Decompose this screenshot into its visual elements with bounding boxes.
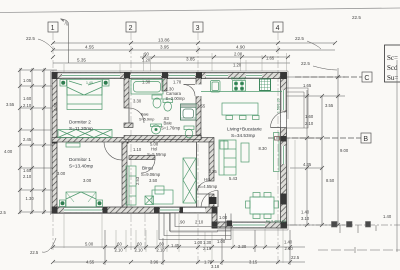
svg-text:C: C: [364, 75, 369, 82]
B-axis wall dorm2/dorm1: [52, 138, 129, 143]
svg-text:8.50: 8.50: [326, 178, 335, 183]
shelf dormitor1: [66, 143, 80, 147]
ticks left chain: [18, 68, 46, 214]
svg-text:Su=: Su=: [387, 74, 398, 82]
svg-text:1.40: 1.40: [86, 81, 93, 85]
svg-text:Hol: Hol: [204, 177, 210, 182]
svg-text:2.00: 2.00: [234, 52, 243, 57]
svg-text:.90: .90: [143, 52, 149, 57]
hall closet with X: [183, 158, 196, 203]
svg-text:B: B: [363, 136, 368, 143]
svg-text:S=5.9mp: S=5.9mp: [139, 118, 154, 122]
desk chair: [145, 196, 154, 205]
svg-text:S=1.76mp: S=1.76mp: [161, 126, 181, 131]
svg-text:1.50/1.20: 1.50/1.20: [277, 98, 281, 113]
window dormitor1 bottom: [64, 207, 102, 212]
desk birou: [152, 186, 173, 204]
kitchen island: [222, 103, 259, 120]
svg-text:1.30: 1.30: [203, 240, 212, 245]
svg-text:5.43: 5.43: [229, 176, 238, 181]
nightstand left with plant: [60, 80, 67, 87]
outer sill line: [51, 71, 289, 232]
svg-text:4.00: 4.00: [4, 149, 13, 154]
svg-text:Fe 2.40/2.10: Fe 2.40/2.10: [266, 220, 286, 224]
svg-text:1.40: 1.40: [301, 210, 310, 215]
window living bottom: [233, 222, 265, 227]
dining table: [246, 193, 279, 219]
window dormitor2 top: [62, 73, 120, 78]
stove: [233, 81, 246, 92]
bidet: [163, 99, 173, 111]
bed dormitor1: [66, 192, 96, 207]
sheet fold line: [0, 8, 400, 13]
washbasin: [151, 124, 162, 134]
svg-text:.90: .90: [179, 220, 185, 225]
svg-text:1.65: 1.65: [266, 56, 275, 61]
window kitchen top 2: [246, 73, 262, 78]
svg-text:1.10: 1.10: [133, 147, 142, 152]
baie door arc: [129, 108, 144, 123]
svg-text:1.78: 1.78: [173, 80, 182, 85]
entry steps: [159, 214, 231, 240]
left wall: [52, 73, 57, 214]
wall stub under baie door: [124, 123, 133, 128]
nightstand left d1: [60, 200, 66, 207]
wall dorm2/baie vertical: [124, 78, 129, 108]
svg-text:1.40: 1.40: [284, 240, 293, 245]
kitchen sink: [211, 81, 221, 93]
svg-text:3.95: 3.95: [160, 45, 169, 50]
camara door arc: [184, 85, 196, 97]
top dimension lines: [53, 43, 335, 63]
top wall: [52, 73, 287, 79]
svg-text:Baie: Baie: [141, 113, 149, 117]
svg-text:.60: .60: [158, 242, 164, 247]
svg-text:2.30: 2.30: [238, 244, 247, 249]
bed dormitor2: [67, 80, 102, 110]
svg-text:3.30: 3.30: [133, 99, 142, 104]
witness lines bottom: [64, 140, 295, 263]
pier hol wall: [209, 197, 217, 204]
svg-text:S=5.59mp: S=5.59mp: [147, 152, 167, 157]
ticks right chain: [305, 75, 340, 227]
bottom wall left part: [52, 207, 217, 213]
svg-text:3.96: 3.96: [150, 260, 159, 265]
svg-text:1.30: 1.30: [166, 87, 175, 92]
B-axis wall hol top: [129, 138, 214, 143]
svg-text:Living+Bucatarie: Living+Bucatarie: [227, 127, 262, 132]
coffee table: [241, 143, 249, 162]
bottom wall right part: [212, 222, 287, 228]
svg-text:S=11.20mp: S=11.20mp: [69, 126, 93, 131]
nightstand right d1: [97, 200, 103, 207]
svg-text:S=34.53mp: S=34.53mp: [231, 133, 255, 138]
svg-text:3.55: 3.55: [6, 102, 15, 107]
corner piers: [52, 72, 288, 229]
right dimension chain: [287, 68, 346, 225]
grid marker 1: [48, 22, 58, 32]
svg-text:1.00: 1.00: [219, 215, 228, 220]
hol-living door arc: [197, 181, 210, 194]
svg-text:22.5: 22.5: [26, 36, 35, 41]
svg-text:13.86: 13.86: [158, 38, 170, 43]
svg-text:3.55: 3.55: [197, 104, 206, 109]
svg-text:22.5: 22.5: [352, 15, 361, 20]
grid marker 2: [126, 22, 136, 32]
window camara top: [169, 73, 195, 78]
svg-text:3.15: 3.15: [249, 260, 258, 265]
dorm1 door arc: [104, 142, 122, 160]
fridge: [260, 79, 271, 91]
svg-text:S=9.06mp: S=9.06mp: [141, 172, 161, 177]
svg-text:3.85: 3.85: [186, 57, 195, 62]
svg-text:8.30: 8.30: [259, 146, 268, 151]
svg-text:1.30: 1.30: [26, 196, 35, 201]
svg-text:Dormitor 1: Dormitor 1: [69, 157, 91, 162]
window right wall living: [281, 146, 286, 164]
dorm1 right wall: [122, 142, 127, 207]
svg-text:1.05: 1.05: [23, 78, 32, 83]
grid marker B: [268, 133, 371, 143]
birou door arc: [141, 160, 155, 174]
svg-text:5.08: 5.08: [150, 142, 159, 147]
wall camara vertical stub: [162, 78, 167, 91]
svg-text:2.10: 2.10: [157, 248, 166, 253]
svg-text:2.10: 2.10: [23, 174, 32, 179]
svg-text:2.10: 2.10: [305, 121, 314, 126]
window birou bottom: [160, 207, 179, 212]
svg-text:2.10: 2.10: [195, 220, 204, 225]
tick marks top dims: [51, 41, 337, 59]
wall hol/living vertical: [209, 142, 214, 181]
svg-text:22.5: 22.5: [291, 255, 300, 260]
wall camara/living vertical: [196, 78, 201, 135]
svg-text:S=2.00mp: S=2.00mp: [166, 96, 186, 101]
svg-text:4.58: 4.58: [53, 102, 58, 111]
svg-text:Dormitor 2: Dormitor 2: [69, 120, 91, 125]
svg-text:1: 1: [51, 25, 55, 32]
tv unit: [274, 133, 280, 172]
svg-text:4: 4: [276, 25, 280, 32]
right page border: [396, 60, 398, 252]
svg-text:3.50: 3.50: [149, 178, 158, 183]
connector wall entry east side: [212, 207, 217, 228]
east facade window projection lines: [287, 88, 309, 128]
svg-text:1.65: 1.65: [303, 83, 312, 88]
svg-text:3: 3: [196, 25, 200, 32]
svg-text:2.5: 2.5: [0, 210, 6, 215]
svg-text:3.18: 3.18: [211, 264, 220, 269]
wall baie bottom: [124, 136, 201, 140]
left dimension chains: [20, 68, 57, 214]
svg-text:1.60: 1.60: [305, 114, 314, 119]
svg-text:3.75: 3.75: [209, 169, 218, 174]
wall hol/birou horizontal: [129, 156, 155, 160]
svg-text:22.5: 22.5: [301, 61, 310, 66]
grid marker 3: [193, 22, 203, 32]
svg-text:9.00: 9.00: [340, 148, 349, 153]
svg-text:2.53: 2.53: [135, 176, 140, 185]
svg-text:2.10: 2.10: [23, 103, 32, 108]
grid marker 4: [273, 22, 283, 32]
bottom dimension rows: [53, 230, 305, 265]
toilet baie: [152, 95, 162, 108]
kitchen counter line: [201, 91, 282, 93]
svg-text:.83: .83: [163, 116, 169, 121]
birou couch: [126, 166, 136, 205]
pier below door: [281, 136, 287, 142]
wardrobe dormitor2: [58, 130, 112, 138]
svg-text:3.00: 3.00: [57, 171, 66, 176]
svg-text:3.00: 3.00: [83, 178, 92, 183]
svg-text:S=13.40mp: S=13.40mp: [69, 164, 93, 169]
north arrow: [61, 19, 70, 63]
svg-text:3.10: 3.10: [301, 216, 310, 221]
svg-text:3.55: 3.55: [325, 103, 334, 108]
svg-text:22.5: 22.5: [30, 250, 39, 255]
grid axis vertical lines: [53, 32, 278, 265]
window right wall kitchen: [281, 90, 286, 110]
svg-text:5.00: 5.00: [85, 242, 94, 247]
sofa living: [219, 140, 236, 175]
svg-text:2.45: 2.45: [23, 137, 32, 142]
svg-text:1.00: 1.00: [217, 239, 226, 244]
entry door arc: [201, 191, 218, 208]
ticks bottom rows: [51, 245, 292, 264]
grid marker C: [295, 72, 372, 82]
bathtub: [131, 80, 163, 95]
svg-text:2: 2: [129, 25, 133, 32]
svg-text:4.90: 4.90: [236, 45, 245, 50]
svg-text:22.5: 22.5: [295, 36, 304, 41]
svg-text:1.00: 1.00: [194, 240, 203, 245]
info box top right: [385, 45, 400, 82]
property line bottom right: [290, 222, 400, 254]
svg-text:S=4.55mp: S=4.55mp: [198, 184, 218, 189]
svg-text:Scd: Scd: [387, 64, 398, 72]
right wall: [281, 73, 287, 229]
svg-text:1.30: 1.30: [142, 80, 151, 85]
svg-text:4.55: 4.55: [85, 45, 94, 50]
svg-text:Bucatarie: Bucatarie: [231, 77, 246, 81]
svg-text:Sc=: Sc=: [387, 54, 398, 62]
svg-text:1.60: 1.60: [23, 96, 32, 101]
shower/washer: [181, 104, 197, 120]
window kitchen top 1: [206, 73, 228, 78]
wall birou/hol thin: [196, 142, 198, 207]
nightstand right with plant: [103, 80, 110, 87]
door opening right wall (entrance door): [271, 112, 287, 129]
svg-text:4.55: 4.55: [86, 260, 95, 265]
witness verticals top: [64, 53, 287, 72]
svg-text:4.35: 4.35: [303, 162, 312, 167]
wc2: [184, 126, 194, 138]
svg-text:Birou: Birou: [142, 166, 153, 171]
svg-text:Hol: Hol: [151, 147, 157, 152]
window baie top: [131, 73, 161, 78]
svg-text:1.40: 1.40: [383, 214, 392, 219]
wall box living: [275, 137, 280, 141]
svg-text:5.35: 5.35: [77, 58, 86, 63]
svg-text:1.60: 1.60: [23, 168, 32, 173]
